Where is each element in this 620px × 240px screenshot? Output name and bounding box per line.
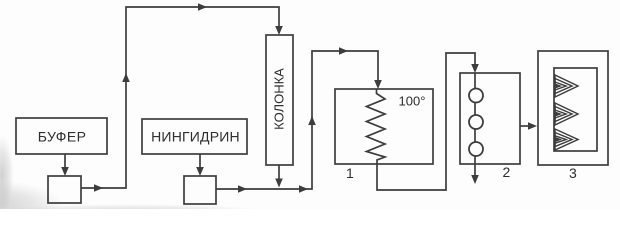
svg-text:НИНГИДРИН: НИНГИДРИН	[151, 129, 240, 145]
svg-text:КОЛОНКА: КОЛОНКА	[272, 68, 287, 130]
svg-text:100°: 100°	[399, 94, 426, 109]
svg-text:1: 1	[346, 165, 354, 181]
svg-text:БУФЕР: БУФЕР	[38, 129, 87, 145]
svg-text:2: 2	[503, 164, 511, 180]
svg-text:3: 3	[569, 165, 577, 181]
